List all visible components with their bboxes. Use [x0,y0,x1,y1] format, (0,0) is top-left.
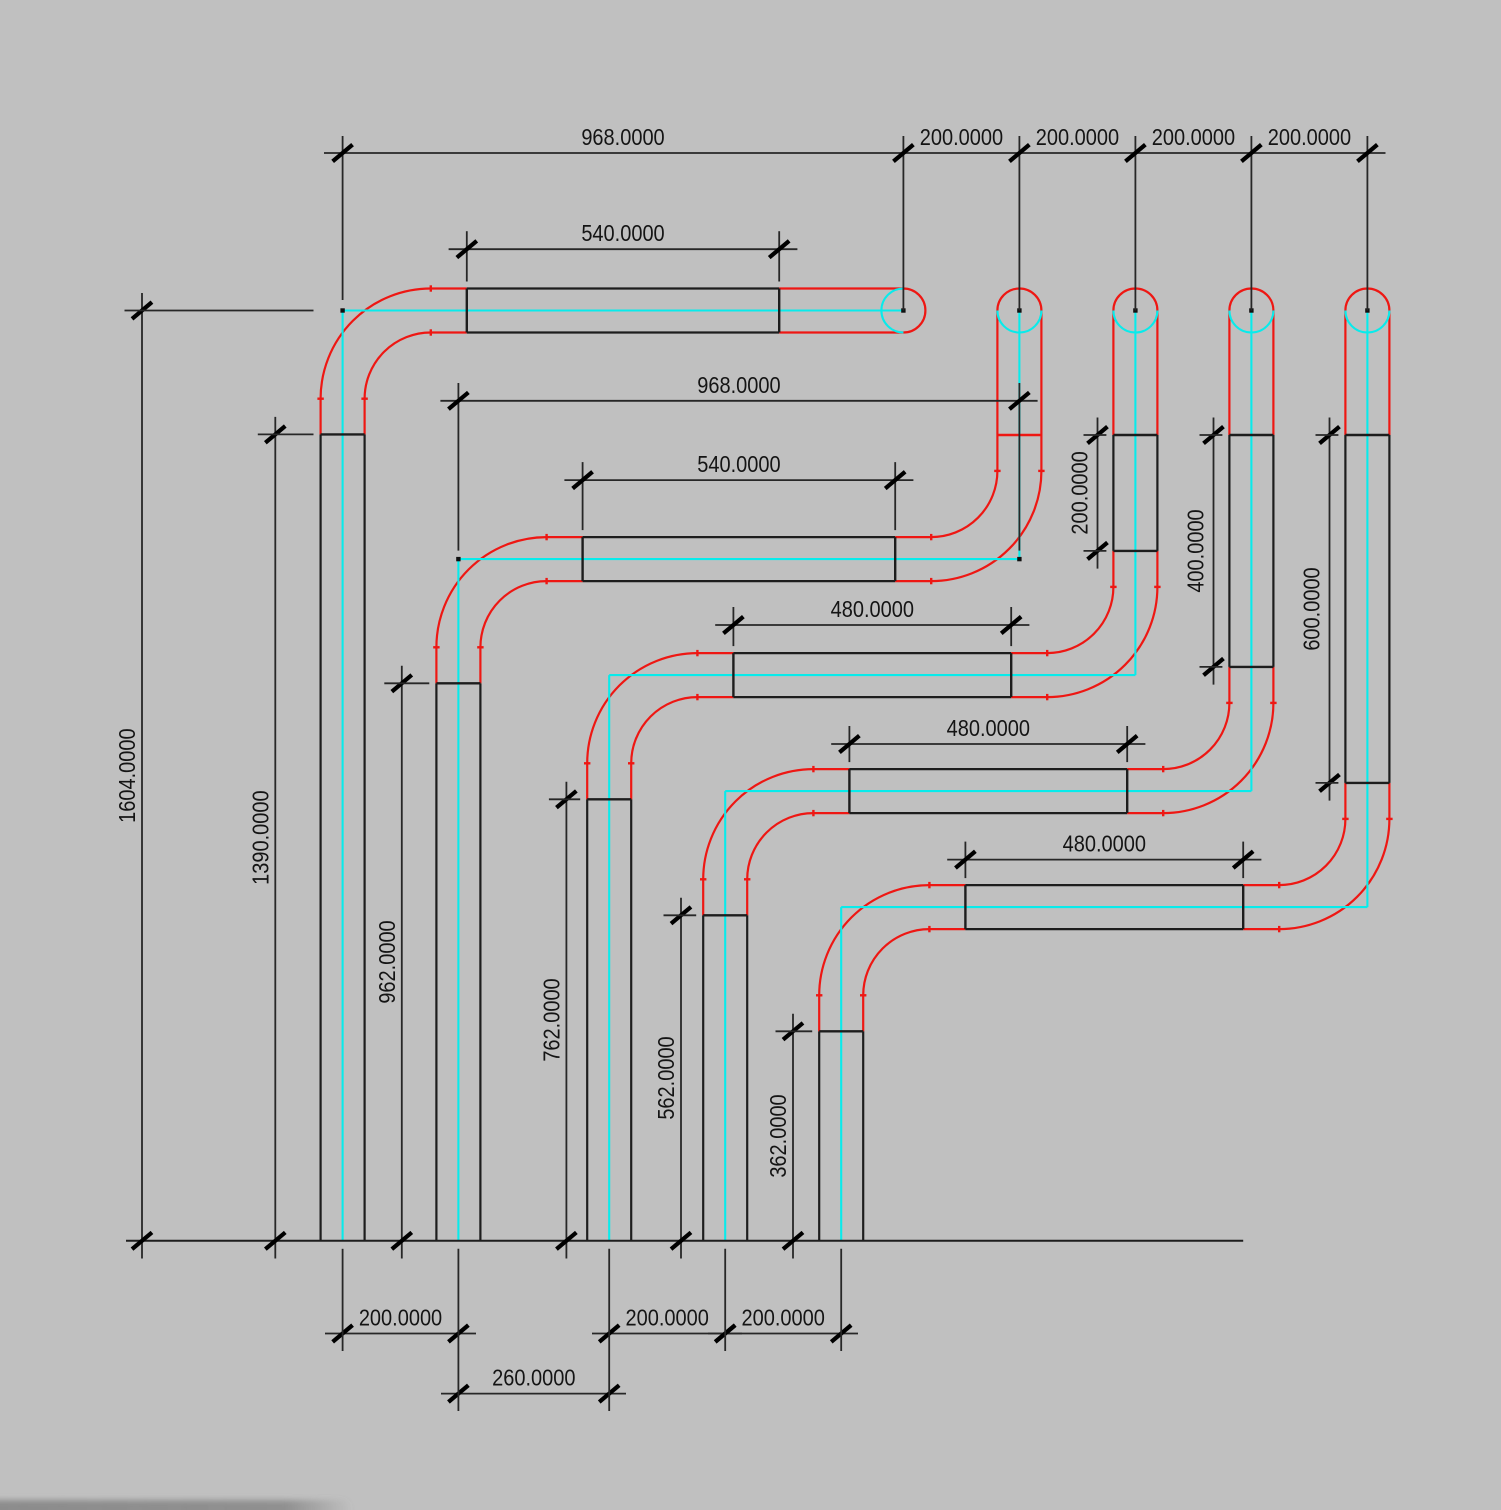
dimension 762.0000 extension line [549,798,580,800]
svg-text:962.0000: 962.0000 [373,920,400,1003]
svg-text:480.0000: 480.0000 [831,595,914,622]
pipe P4 upper elbow (red 90-deg bend) [1127,768,1163,770]
svg-text:1390.0000: 1390.0000 [247,790,274,884]
dimension P2 540 ticks [571,470,594,490]
svg-text:362.0000: 362.0000 [764,1094,791,1177]
dimension P1 540 extension lines [466,231,468,281]
svg-text:1604.0000: 1604.0000 [113,728,140,822]
pipe P5 top vertical straight (black) [1344,435,1346,783]
dimension 362.0000 extension line [776,1030,813,1032]
pipe P1 bottom vertical straight (black) [320,434,322,1240]
pipe P5 end node [1365,308,1369,312]
svg-text:200.0000: 200.0000 [1036,123,1119,150]
dimension 968.0000 (pipe P2 span): dim line [440,400,1037,402]
pipe P2 bottom vertical straight (black) [435,683,437,1241]
baseline / bottom datum line [126,1240,1243,1242]
svg-text:200.0000: 200.0000 [1152,123,1235,150]
svg-text:480.0000: 480.0000 [947,714,1030,741]
pipe P4 end node [1249,308,1253,312]
dimension 762.0000 ticks [555,789,578,809]
dimension 480.0000 (pipe P5 straight): dim line [947,859,1261,861]
pipe P3 end node [1133,308,1137,312]
dimension 1604.0000 extension line [125,310,314,312]
svg-text:540.0000: 540.0000 [581,220,664,247]
dimension 480.0000 (pipe P3 straight): dim line [715,624,1029,626]
svg-text:200.0000: 200.0000 [1066,451,1093,534]
dimension P2 968 ticks [447,391,470,411]
svg-text:200.0000: 200.0000 [1268,123,1351,150]
dimension bottom 200 P1-P2 ticks [331,1324,354,1344]
dimension 400.0000 (top vertical): dim line [1213,418,1215,685]
pipe P2 bend tangent ticks (red) [433,646,439,648]
dimension 200.0000 ticks [1086,425,1109,445]
pipe P3 bend tangent ticks (red) [584,762,590,764]
dimension 540.0000 (pipe P2 straight): dim line [564,479,913,481]
dimension bottom 200 P4-P5 ticks [714,1324,737,1344]
dimension 1390.0000 extension line [258,433,314,435]
svg-text:600.0000: 600.0000 [1298,567,1325,650]
pipe P5 centerline (cyan) [840,907,842,1241]
pipe P3 cap inner arc (cyan) [1113,311,1157,333]
svg-text:260.0000: 260.0000 [492,1364,575,1391]
dimension P3 480 ticks [722,615,745,635]
dimension 962.0000 extension line [384,682,429,684]
svg-text:562.0000: 562.0000 [652,1036,679,1119]
dimension 962.0000 ticks [390,673,413,693]
pipe P1 end node [901,308,905,312]
dimension 1390.0000 (vertical): dim line [274,417,276,1259]
svg-text:762.0000: 762.0000 [538,978,565,1061]
dimension P2 540 extension lines [582,462,584,530]
pipe P1 centerline (cyan) [342,311,344,1241]
dimension P2 968 extension lines [457,383,459,551]
dimension 762.0000 (vertical): dim line [565,782,567,1259]
pipe P2 cap inner arc (cyan) [997,311,1041,333]
pipe P3 upper elbow (red 90-deg bend) [1011,652,1047,654]
pipe P3 top vertical straight (black) [1112,435,1114,551]
dimension bottom 200.0000 (P4-P5): dim line [708,1333,858,1335]
dimension 600.0000 (top vertical): dim line [1329,418,1331,801]
dimension 1604.0000 (vertical): dim line [141,293,143,1259]
dimension 480.0000 (pipe P4 straight): dim line [831,743,1145,745]
pipe P3 horizontal straight (black) [733,652,1011,654]
dimension 1604.0000 ticks [131,301,154,321]
dimension 540.0000 (pipe P1 straight): dim line [449,248,798,250]
pipe P5 bottom vertical straight (black) [818,1031,820,1241]
pipe P4 top vertical straight (black) [1228,435,1230,667]
dimension 200.0000 extension lines [1084,434,1107,436]
svg-text:200.0000: 200.0000 [359,1304,442,1331]
pipe P1 horizontal straight (black) [467,287,779,289]
dimension 400.0000 extension lines [1200,434,1223,436]
dimension P3 480 extension lines [732,607,734,646]
dimension P4 480 extension lines [848,726,850,762]
pipe P4 cap inner arc (cyan) [1229,311,1273,333]
dimension 562.0000 (vertical): dim line [680,898,682,1259]
dimension bottom 260 ticks [447,1384,470,1404]
pipe P2 horizontal straight (black) [583,536,896,538]
pipe P4 bottom vertical straight (black) [702,915,704,1241]
pipe P5 top end piece (red) with cap [1344,311,1346,436]
pipe P3 lower elbow (red 90-deg bend) [586,763,588,799]
pipe P4 top end piece (red) with cap [1228,311,1230,436]
svg-text:200.0000: 200.0000 [626,1304,709,1331]
dimension bottom 200.0000 (P1-P2): dim line [325,1333,476,1335]
pipe P1 bend tangent ticks (red) [317,398,323,400]
pipe P3 bottom vertical straight (black) [586,799,588,1241]
dimension 962.0000 (vertical): dim line [401,666,403,1259]
pipe P2 junction lines [436,682,480,684]
pipe P4 junction lines [703,914,747,916]
dimension top chain ticks [331,143,354,163]
dimension bottom 200.0000 (P3-P4): dim line [592,1333,742,1335]
svg-text:200.0000: 200.0000 [920,123,1003,150]
pipe P1 cap inner arc (cyan) [881,289,903,333]
dimension 1390.0000 ticks [264,424,287,444]
dimension P5 480 extension lines [964,842,966,879]
svg-text:968.0000: 968.0000 [581,123,664,150]
dimension P5 480 ticks [954,850,977,870]
svg-text:200.0000: 200.0000 [742,1304,825,1331]
bottom-left shadow smudge [0,1500,352,1510]
svg-text:540.0000: 540.0000 [697,451,780,478]
pipe P1 corner node [340,308,344,312]
dimension 400.0000 ticks [1202,425,1225,445]
pipe P5 junction lines [819,1030,863,1032]
pipe P4 bend tangent ticks (red) [700,878,706,880]
dimension 600.0000 ticks [1318,425,1341,445]
pipe P5 bend tangent ticks (red) [816,994,822,996]
pipe P2 upper elbow (red 90-deg bend) [895,536,931,538]
dimension 562.0000 ticks [670,905,693,925]
dimension top 968.0000 + 200.0000 chain: dim line [324,152,1386,154]
dimension 362.0000 (vertical): dim line [792,1014,794,1259]
pipe P1 junction lines [321,433,365,435]
pipe P5 horizontal straight (black) [965,884,1243,886]
pipe P2 lower elbow (red 90-deg bend) [435,647,437,683]
pipe P4 lower elbow (red 90-deg bend) [702,879,704,915]
svg-text:400.0000: 400.0000 [1182,509,1209,592]
dimension 562.0000 extension line [664,914,697,916]
dimension P4 480 ticks [838,734,861,754]
pipe P3 top end piece (red) with cap [1112,311,1114,436]
dimension bottom 200 P3-P4 ticks [598,1324,621,1344]
dimension 200.0000 (top vertical): dim line [1097,418,1099,569]
pipe P2 top end piece (red) with cap [996,311,998,436]
pipe P2 centerline (cyan) [457,559,459,1241]
dimension bottom 260.0000 (P2-P3): dim line [441,1393,626,1395]
pipe P4 centerline (cyan) [724,791,726,1241]
dimension 362.0000 ticks [782,1021,805,1041]
pipe P5 upper elbow (red 90-deg bend) [1243,884,1279,886]
dimension 600.0000 extension lines [1316,434,1339,436]
pipe P4 horizontal straight (black) [849,768,1127,770]
pipe P3 junction lines [587,798,631,800]
pipe P2 corner nodes (dimension defpoints) [456,557,460,561]
pipe P1 end piece (red) with cap [779,287,903,289]
svg-text:480.0000: 480.0000 [1063,830,1146,857]
pipe P2 end node [1017,308,1021,312]
svg-text:968.0000: 968.0000 [697,371,780,398]
dimension P1 540 ticks [455,239,478,259]
pipe P1 elbow (red 90-deg bend) [320,399,322,435]
dimension top chain extension lines [342,136,344,300]
pipe P3 centerline (cyan) [608,675,610,1241]
pipe P5 lower elbow (red 90-deg bend) [818,995,820,1031]
pipe P5 cap inner arc (cyan) [1345,311,1389,333]
bottom dims extension lines [342,1249,344,1351]
